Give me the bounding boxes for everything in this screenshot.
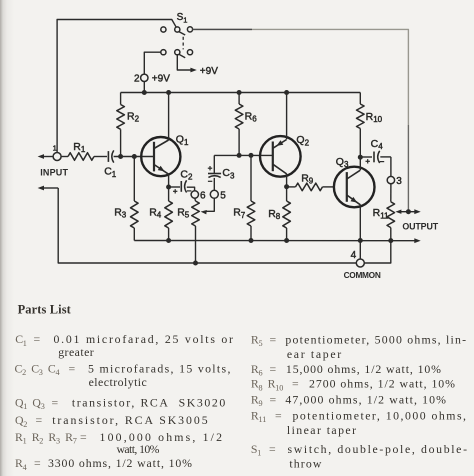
svg-text:=: = (275, 408, 282, 422)
wire bus to terminal 4 (359, 241, 361, 260)
transistor Q1 (141, 137, 180, 176)
label C4 (371, 138, 384, 151)
node R3 junction (132, 154, 137, 159)
switch S1 (161, 27, 193, 58)
label R11 (373, 207, 389, 220)
terminal 1 (53, 153, 61, 161)
R5 wiper from terminal 5 (201, 198, 215, 214)
svg-text:=: = (270, 362, 277, 376)
terminal 4 (356, 259, 364, 267)
svg-text:3: 3 (39, 368, 43, 377)
svg-text:47,000 ohms, 1/2 watt, 10%: 47,000 ohms, 1/2 watt, 10% (285, 393, 446, 407)
wire Q2 emitter to bus (286, 93, 288, 140)
label +9V at terminal 2 (152, 74, 170, 85)
label R10 (366, 111, 383, 124)
svg-text:5: 5 (259, 339, 263, 348)
wire switch pole2 to terminal 2 (144, 52, 161, 74)
svg-text:11: 11 (259, 415, 267, 424)
svg-text:electrolytic: electrolytic (89, 375, 147, 389)
node Q1 collector/bus junction (166, 90, 171, 95)
wire +9V top bus (121, 92, 361, 94)
label R4 (149, 206, 162, 219)
label Q1 (176, 134, 189, 147)
svg-text:=: = (34, 456, 41, 470)
resistor R5 (potentiometer) (192, 198, 200, 263)
svg-text:=: = (292, 377, 299, 391)
wire Q1 emitter down (168, 174, 170, 201)
node Q2 emitter/bus junction (284, 90, 289, 95)
label COMMON (344, 270, 381, 280)
svg-text:15,000 ohms, 1/2 watt, 10%: 15,000 ohms, 1/2 watt, 10% (286, 362, 441, 376)
label R7 (233, 207, 246, 220)
svg-text:=: = (36, 413, 43, 427)
svg-text:3: 3 (41, 402, 45, 411)
svg-text:linear taper: linear taper (287, 423, 356, 437)
transistor Q2 (260, 136, 301, 177)
input arrow (38, 154, 54, 159)
resistor R8 (283, 201, 291, 241)
wire Q3 collector up (359, 129, 361, 171)
resistor R1 (61, 153, 107, 161)
svg-text:10: 10 (275, 383, 283, 392)
resistor R4 (165, 201, 173, 241)
node R6 junction (237, 153, 242, 158)
wire switch pole2 common to +9V arrow (177, 55, 197, 73)
resistor R3 (131, 157, 139, 241)
resistor R11 (potentiometer) (387, 184, 395, 241)
wire C4 to terminal 3 (390, 157, 392, 177)
label 4 (351, 250, 357, 261)
node R2 junction (118, 154, 123, 159)
svg-text:1: 1 (23, 437, 27, 446)
wire C1 to Q1 base (114, 156, 154, 158)
wire emitter ground bus (134, 238, 420, 243)
node Q2 collector junction (284, 184, 289, 189)
svg-text:transistor, RCA SK3005: transistor, RCA SK3005 (52, 413, 207, 427)
heading Parts List (18, 302, 72, 316)
resistor R6 (235, 93, 243, 156)
wire Q2 base node (C3 to base) (214, 154, 273, 156)
svg-text:=: = (269, 442, 276, 456)
node Q1 emitter junction (166, 185, 171, 190)
wire input-to-switch (left vertical and top run) (57, 20, 176, 153)
svg-text:Parts List: Parts List (18, 302, 72, 316)
capacitor C1 (108, 150, 113, 162)
resistor R7 (247, 155, 255, 240)
svg-text:=: = (270, 332, 277, 346)
label C2 (180, 168, 193, 181)
svg-text:2: 2 (22, 368, 26, 377)
label Q2 (296, 134, 309, 147)
node R4/bus (166, 238, 171, 243)
resistor R2 (117, 93, 125, 157)
label R8 (268, 208, 281, 221)
label 5 (220, 190, 226, 201)
svg-text:potentiometer, 10,000 ohms,: potentiometer, 10,000 ohms, (293, 408, 467, 422)
svg-text:2: 2 (23, 420, 27, 429)
svg-text:transistor, RCA SK3020: transistor, RCA SK3020 (72, 396, 225, 410)
label Q3 (336, 156, 349, 169)
terminal 6 (191, 191, 198, 198)
svg-text:4: 4 (56, 368, 60, 377)
svg-text:=: = (80, 430, 87, 444)
svg-text:5 microfarads, 15 volts,: 5 microfarads, 15 volts, (88, 362, 230, 376)
svg-text:potentiometer, 5000 ohms, lin-: potentiometer, 5000 ohms, lin- (285, 332, 466, 346)
wire Q1 collector to bus (168, 93, 170, 140)
common return arrow (38, 186, 59, 191)
node Q3 emitter/bus junction (358, 238, 363, 243)
node R7/bus (249, 238, 254, 243)
R11 wiper and output arrow (395, 209, 420, 214)
svg-text:6: 6 (259, 369, 263, 378)
terminal 3 (387, 176, 394, 183)
svg-text:2700 ohms, 1/2 watt, 10%: 2700 ohms, 1/2 watt, 10% (309, 377, 455, 391)
node R8/bus (284, 238, 289, 243)
node wiper/switch-wire junction (406, 209, 411, 214)
label R9 (301, 172, 314, 185)
label C3 (222, 167, 235, 180)
label OUTPUT (402, 222, 438, 232)
label 3 (396, 176, 402, 187)
node R5/common bus (193, 261, 198, 266)
svg-text:watt, 10%: watt, 10% (117, 442, 160, 456)
svg-text:4: 4 (23, 463, 27, 472)
svg-text:ear taper: ear taper (287, 347, 341, 361)
svg-text:2: 2 (39, 437, 43, 446)
transistor Q3 (334, 167, 375, 208)
svg-text:throw: throw (289, 457, 321, 471)
capacitor C2 (169, 180, 195, 193)
svg-text:=: = (52, 396, 59, 410)
svg-text:=: = (270, 393, 277, 407)
label R5 (177, 206, 190, 219)
terminal 5 (210, 190, 218, 198)
label R2 (127, 110, 140, 123)
svg-text:1: 1 (23, 402, 27, 411)
label 1 (53, 143, 57, 152)
resistor R10 (357, 93, 365, 129)
capacitor C4 (360, 151, 391, 164)
resistor R9 (287, 183, 335, 191)
capacitor C3 (208, 155, 221, 190)
label 6 (200, 190, 206, 201)
svg-text:=: = (69, 362, 76, 376)
svg-text:9: 9 (259, 399, 263, 408)
node Q3 collector junction (358, 155, 363, 160)
wire Q2 collector down (286, 174, 288, 201)
wire Q3 emitter down (359, 205, 361, 241)
svg-text:1: 1 (23, 339, 27, 348)
svg-text:greater: greater (58, 345, 94, 359)
label INPUT (40, 167, 68, 177)
svg-text:8: 8 (259, 383, 263, 392)
label C1 (104, 166, 117, 179)
svg-text:=: = (34, 332, 41, 346)
label S1 (177, 12, 188, 24)
svg-text:switch, double-pole, double-: switch, double-pole, double- (288, 442, 468, 456)
label +9V at switch (200, 66, 218, 77)
label R6 (245, 110, 258, 123)
wire switch pole1 to output junction (faded) (193, 29, 409, 211)
svg-text:1: 1 (257, 449, 261, 458)
node terminal2/bus junction (142, 90, 147, 95)
node R11/bus (388, 238, 393, 243)
wire common bus (58, 188, 391, 263)
node R6/bus junction (237, 90, 242, 95)
svg-text:3: 3 (56, 437, 60, 446)
terminal 2 (141, 74, 148, 81)
svg-text:3300 ohms, 1/2 watt, 10%: 3300 ohms, 1/2 watt, 10% (48, 456, 192, 470)
wire terminal 2 to top bus (143, 82, 145, 93)
label 2 (134, 74, 140, 85)
label R1 (73, 141, 86, 154)
label R3 (114, 206, 127, 219)
node R7 junction (249, 153, 254, 158)
svg-text:7: 7 (73, 437, 77, 446)
